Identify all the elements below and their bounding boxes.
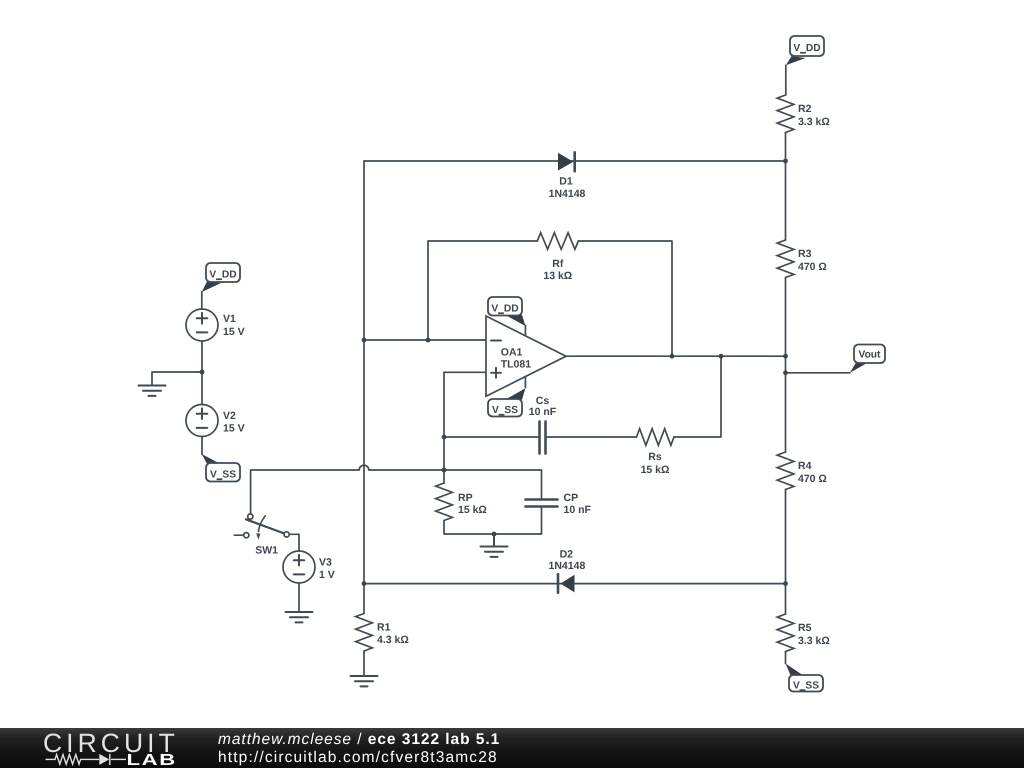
svg-text:R3: R3 <box>798 248 812 260</box>
svg-text:CP: CP <box>564 492 579 504</box>
svg-text:3.3 kΩ: 3.3 kΩ <box>798 635 830 647</box>
wire Rf right branch <box>578 241 672 356</box>
wire Rs branch down <box>674 356 721 437</box>
node junction plus node/switch net <box>442 468 447 473</box>
wire left bus vertical <box>363 161 365 614</box>
svg-text:V_SS: V_SS <box>210 470 236 481</box>
net flag V_SS (op-amp) <box>488 388 525 416</box>
svg-text:1N4148: 1N4148 <box>549 188 586 200</box>
svg-text:470 Ω: 470 Ω <box>798 473 827 485</box>
svg-text:TL081: TL081 <box>501 359 532 371</box>
wire Rf left branch <box>428 241 537 340</box>
svg-text:R5: R5 <box>798 622 812 634</box>
wire ground stub left <box>152 372 202 386</box>
net flag V_SS (V2) <box>202 454 240 482</box>
node junction output/bus <box>783 354 788 359</box>
node junction left bus/minus input <box>362 338 367 343</box>
wire right bus R2-R3 <box>785 133 787 241</box>
wire Rs to Cs <box>547 436 637 438</box>
svg-text:R2: R2 <box>798 103 812 115</box>
wire V3 to ground <box>298 583 300 612</box>
wire V1 to V2 <box>201 341 203 405</box>
ground (V3) <box>286 612 313 622</box>
wire Cs to plus node <box>444 436 539 438</box>
svg-text:OA1: OA1 <box>501 347 523 359</box>
node junction Vout tap <box>783 370 788 375</box>
op-amp OA1 <box>486 316 566 396</box>
svg-text:D2: D2 <box>560 549 574 561</box>
diode D2 <box>549 549 586 593</box>
wire right bus R4-R5 <box>785 490 787 615</box>
resistor Rs <box>637 429 675 476</box>
svg-text:D1: D1 <box>559 176 573 188</box>
svg-text:SW1: SW1 <box>255 545 278 557</box>
resistor RP <box>436 483 487 521</box>
svg-text:470 Ω: 470 Ω <box>798 261 827 273</box>
svg-text:R4: R4 <box>798 460 812 472</box>
capacitor CP <box>526 492 592 516</box>
wire Vout <box>786 372 850 374</box>
svg-text:RP: RP <box>458 492 473 504</box>
wire R1 to ground <box>363 651 365 676</box>
svg-text:V1: V1 <box>223 313 236 325</box>
capacitor Cs <box>529 395 557 454</box>
svg-text:13 kΩ: 13 kΩ <box>543 270 572 282</box>
resistor R2 <box>777 95 830 133</box>
svg-text:1N4148: 1N4148 <box>549 560 586 572</box>
wire minus input <box>364 339 486 341</box>
svg-text:V_SS: V_SS <box>492 405 518 416</box>
svg-text:Rs: Rs <box>648 451 662 463</box>
svg-text:R1: R1 <box>377 622 391 634</box>
net flag V_DD (V1) <box>202 263 240 292</box>
switch SW1 <box>234 514 289 557</box>
net flag V_DD (top right) <box>786 36 824 65</box>
node junction R2/R3/D1 <box>783 159 788 164</box>
svg-text:V_DD: V_DD <box>209 270 236 281</box>
diode D1 <box>549 152 586 200</box>
svg-text:LAB: LAB <box>127 752 177 768</box>
net flag V_SS (bottom right) <box>786 664 824 692</box>
resistor R4 <box>777 452 827 490</box>
voltage source V1 <box>186 309 245 341</box>
net flag Vout <box>850 345 885 373</box>
wire switch vertical <box>250 470 252 514</box>
CircuitLab logo <box>0 728 200 768</box>
wire top net D1 <box>364 160 786 162</box>
wire plus input <box>444 371 486 373</box>
ground (RP/CP) <box>481 534 508 557</box>
voltage source V3 <box>283 551 335 583</box>
svg-text:Vout: Vout <box>859 350 881 361</box>
resistor R1 <box>356 614 409 652</box>
svg-text:3.3 kΩ: 3.3 kΩ <box>798 116 830 128</box>
node junction V1/V2 ground tap <box>200 370 205 375</box>
svg-text:V_SS: V_SS <box>793 680 819 691</box>
net flag V_DD (op-amp) <box>488 297 525 326</box>
svg-text:15 kΩ: 15 kΩ <box>641 464 670 476</box>
wire op-amp output <box>566 355 786 357</box>
svg-text:4.3 kΩ: 4.3 kΩ <box>377 634 409 646</box>
ground (V1/V2 node) <box>139 386 166 396</box>
ground (R1) <box>351 676 378 686</box>
svg-text:1 V: 1 V <box>319 569 335 581</box>
wire D2 net <box>364 583 786 585</box>
node junction Rf/output <box>670 354 675 359</box>
wire right bus R3-R4 <box>785 278 787 453</box>
svg-text:V_DD: V_DD <box>491 304 518 315</box>
resistor R5 <box>777 614 830 652</box>
svg-text:10 nF: 10 nF <box>564 504 592 516</box>
voltage source V2 <box>186 405 245 437</box>
node junction R4/R5/D2 <box>783 581 788 586</box>
node junction Rs branch <box>719 354 724 359</box>
node junction plus node/Cs <box>442 435 447 440</box>
wire right bus R5 to flag <box>785 652 787 664</box>
svg-text:15 kΩ: 15 kΩ <box>458 504 487 516</box>
wire V2 to VSS flag <box>201 437 203 455</box>
svg-text:V_DD: V_DD <box>793 43 820 54</box>
node junction RP/CP ground tap <box>492 532 497 537</box>
wire right bus top <box>785 65 787 95</box>
wire switch net with hop <box>251 465 542 499</box>
svg-text:15 V: 15 V <box>223 326 245 338</box>
wire switch to V3 <box>289 534 299 551</box>
wire RP bottom <box>444 507 542 534</box>
svg-text:V2: V2 <box>223 410 236 422</box>
svg-text:Rf: Rf <box>552 258 564 270</box>
wire V1 top <box>201 292 203 309</box>
svg-text:15 V: 15 V <box>223 423 245 435</box>
footer bar <box>0 728 1024 768</box>
resistor Rf <box>537 233 578 282</box>
node junction left bus/D2 net <box>362 581 367 586</box>
svg-text:V3: V3 <box>319 557 332 569</box>
svg-text:10 nF: 10 nF <box>529 406 557 418</box>
resistor R3 <box>777 240 827 278</box>
wire plus node vertical <box>443 372 445 483</box>
node junction Rf left branch <box>426 338 431 343</box>
footer credit text <box>218 731 500 767</box>
